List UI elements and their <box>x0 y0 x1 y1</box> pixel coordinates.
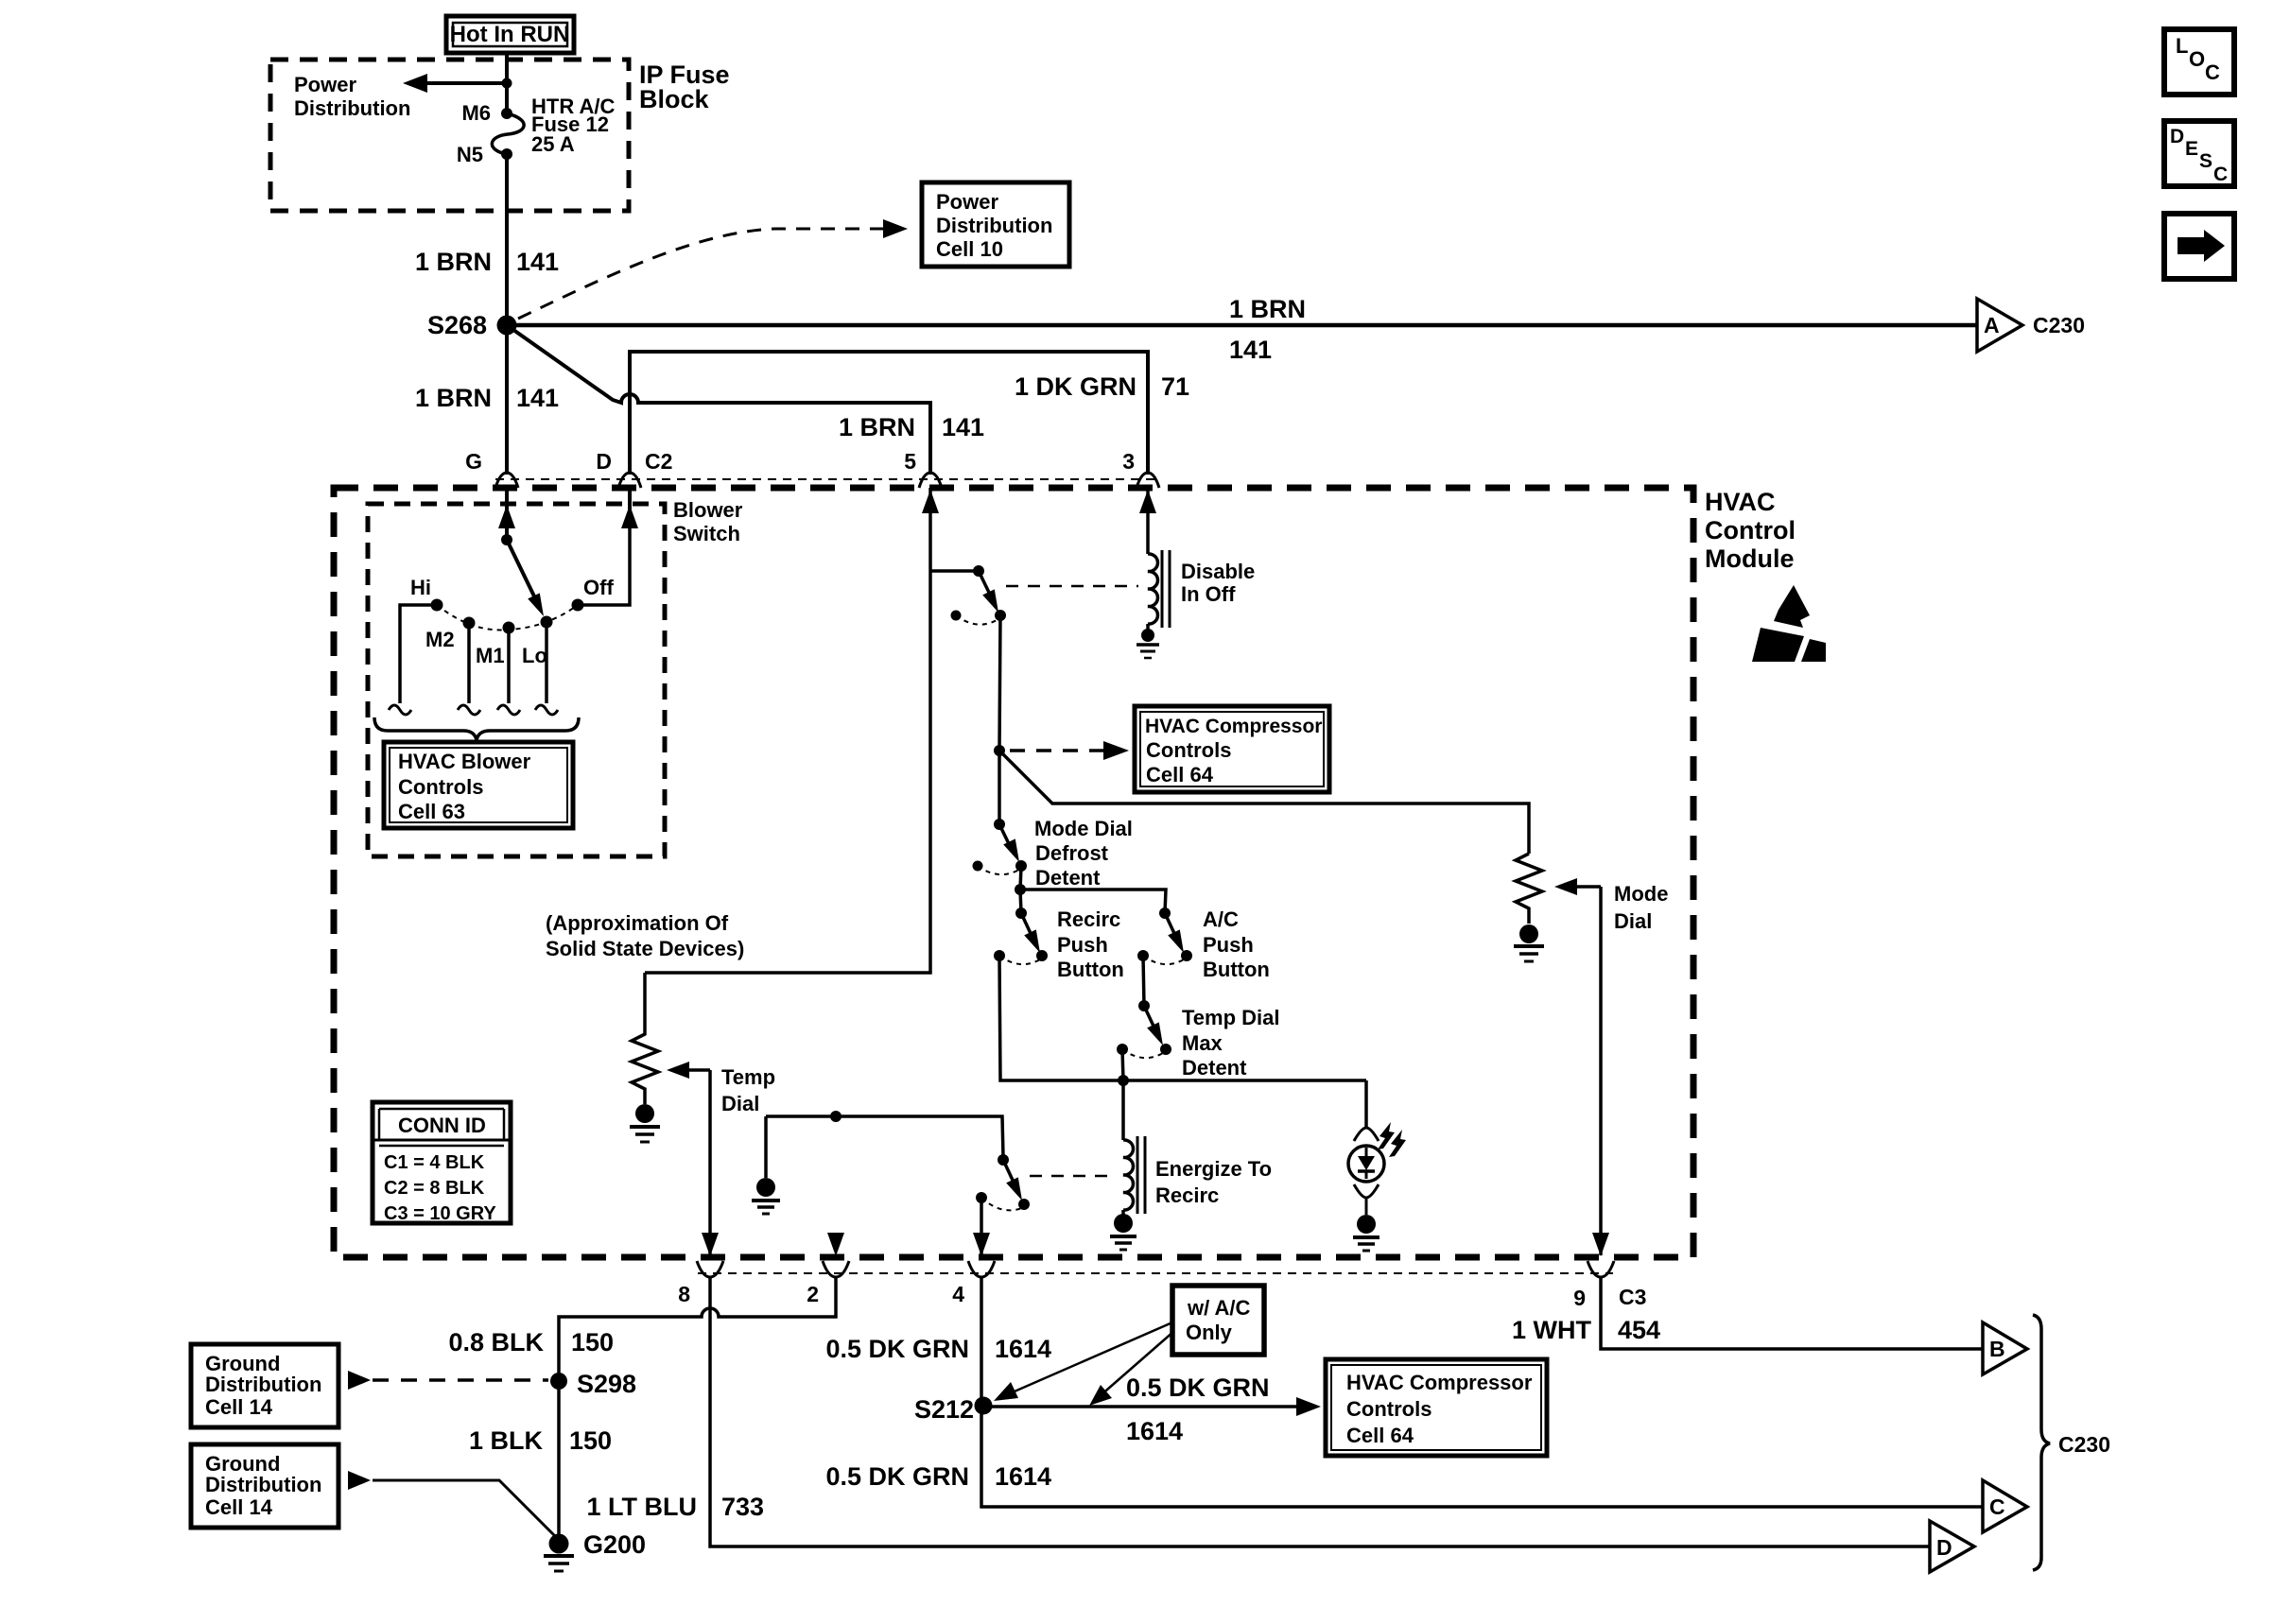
wire down to Defrost detent pivot <box>998 751 1001 824</box>
terminal 2 bump <box>823 1261 849 1277</box>
svg-text:Cell 10: Cell 10 <box>936 237 1003 261</box>
svg-text:9: 9 <box>1573 1286 1586 1310</box>
Temp Dial Max Detent pivot dot <box>1138 1000 1150 1011</box>
svg-text:1 WHT: 1 WHT <box>1512 1316 1592 1344</box>
wire A/C fixed contact down to Temp Max pivot <box>1143 956 1144 1006</box>
svg-text:2: 2 <box>807 1282 819 1306</box>
ground below Mode Dial resistor <box>1514 924 1544 961</box>
Ground Distribution Cell 14 box (lower) <box>191 1444 338 1528</box>
svg-text:Mode Dial: Mode Dial <box>1034 817 1133 840</box>
arrowhead down at border (terminal 4) <box>973 1233 990 1256</box>
svg-text:Distribution: Distribution <box>936 214 1052 237</box>
svg-text:D: D <box>2170 126 2184 147</box>
Temp Dial wiper arrow <box>667 1062 710 1079</box>
coil Disable In Off <box>1148 550 1170 628</box>
wire S298 down to G200 (1 BLK 150) <box>557 1381 561 1537</box>
wire S212 right to HVAC Compressor Controls (0.5 DK GRN 1614) <box>983 1405 1309 1408</box>
svg-text:1614: 1614 <box>1126 1417 1183 1445</box>
ground below Temp Dial resistor <box>630 1104 660 1142</box>
svg-text:Lo: Lo <box>522 644 547 667</box>
svg-text:A: A <box>1984 313 2000 337</box>
svg-text:Push: Push <box>1203 933 1254 957</box>
A/C push button arm <box>1165 913 1178 942</box>
wire terminal 8 down to connector D (1 LT BLU 733) <box>710 1277 1931 1546</box>
wire terminal 9 down to connector B (1 WHT 454) <box>1601 1277 1984 1349</box>
svg-text:S212: S212 <box>914 1395 974 1424</box>
splice S268 <box>497 316 517 336</box>
A/C dashed arc <box>1143 956 1184 964</box>
svg-text:Temp: Temp <box>721 1065 775 1089</box>
svg-text:150: 150 <box>571 1328 614 1356</box>
svg-text:C1 = 4 BLK: C1 = 4 BLK <box>384 1152 485 1173</box>
wire Hot In RUN down to S268 <box>505 53 509 113</box>
wire Recirc fixed contact down to LED feed line <box>999 956 1366 1080</box>
arrowhead up at blower box (Off wire) <box>621 505 638 528</box>
arrowhead up at module border (terminal 3) <box>1139 490 1156 513</box>
label 1 LT BLU 733 <box>587 1493 765 1521</box>
underbrace to HVAC Blower Controls <box>374 717 579 740</box>
svg-text:Controls: Controls <box>1146 738 1231 762</box>
wire-break squiggle M1 <box>497 705 520 715</box>
svg-text:1 BRN: 1 BRN <box>839 413 915 441</box>
svg-text:M6: M6 <box>461 101 491 125</box>
Energize dashed arc <box>981 1198 1022 1210</box>
Defrost detent dashed arc <box>978 866 1019 874</box>
label (Approximation Of Solid State Devices) <box>546 911 744 960</box>
legend box LOC <box>2164 29 2234 95</box>
wire-break squiggle Lo <box>535 705 558 715</box>
junction dot (push button feed) <box>1015 884 1026 895</box>
svg-text:1614: 1614 <box>995 1462 1051 1491</box>
wire terminal D into blower switch <box>628 488 632 522</box>
Recirc arm arrowhead <box>1024 929 1040 953</box>
label Disable In Off <box>1181 560 1255 606</box>
Recirc fixed contact dot <box>994 950 1005 961</box>
svg-text:Mode: Mode <box>1614 882 1668 906</box>
label IP Fuse Block <box>639 60 730 113</box>
svg-text:(Approximation Of: (Approximation Of <box>546 911 729 935</box>
svg-text:L: L <box>2176 34 2188 58</box>
svg-text:1 DK GRN: 1 DK GRN <box>1015 372 1136 401</box>
svg-text:N5: N5 <box>457 143 483 166</box>
svg-text:5: 5 <box>904 449 916 474</box>
wire Temp Max fixed contact to junction <box>1122 1049 1123 1080</box>
Blower Switch inner dashed box <box>368 504 665 856</box>
label 1 WHT 454 <box>1512 1316 1660 1344</box>
LED top connector chevron <box>1354 1128 1379 1141</box>
svg-text:B: B <box>1989 1337 2005 1361</box>
svg-text:C2: C2 <box>645 449 672 474</box>
fuse F12 terminal N5 <box>501 148 512 160</box>
wire Defrost contact to push button branch <box>1020 866 1021 890</box>
wire junction down to Energize coil <box>1121 1080 1125 1140</box>
Temp Max Detent arm <box>1144 1006 1157 1034</box>
svg-text:M2: M2 <box>425 628 455 651</box>
w/ A/C Only box <box>1172 1286 1264 1355</box>
svg-text:141: 141 <box>516 248 559 276</box>
legend box arrow <box>2164 214 2234 279</box>
wire Disable contact down to Defrost branch <box>999 615 1000 751</box>
wire down to LED <box>1364 1080 1368 1127</box>
junction dot at arrow branch <box>502 78 512 89</box>
ground stub on recirc feed line <box>752 1116 780 1214</box>
HVAC Control Module dashed border <box>334 488 1693 1257</box>
svg-text:D: D <box>596 449 612 474</box>
svg-text:CONN ID: CONN ID <box>398 1114 486 1137</box>
terminal 3 bump <box>1136 473 1159 488</box>
svg-text:141: 141 <box>942 413 984 441</box>
Temp Max arm arrowhead <box>1147 1022 1163 1045</box>
label Blower Switch <box>673 498 743 545</box>
wire M1 stub <box>507 628 511 703</box>
svg-text:1 BRN: 1 BRN <box>415 248 492 276</box>
Recirc dashed arc <box>999 956 1040 964</box>
wire Ground Distribution (lower) to G200 <box>373 1480 559 1540</box>
svg-text:1614: 1614 <box>995 1335 1051 1363</box>
LED light rays <box>1378 1122 1406 1157</box>
A/C moving contact dot <box>1181 950 1192 961</box>
wire blower pivot feed <box>505 522 509 540</box>
label 1 BRN 141 (at terminal 5) <box>839 413 984 441</box>
svg-text:S298: S298 <box>577 1370 636 1398</box>
svg-text:25 A: 25 A <box>531 132 575 156</box>
terminal 5 bump <box>919 473 942 488</box>
reference line w/ A/C Only to wire 1614 <box>1089 1331 1174 1406</box>
Defrost detent fixed contact dot <box>973 861 983 872</box>
wire Mode Dial wiper down to terminal 9 <box>1599 887 1603 1255</box>
svg-text:C: C <box>2213 164 2228 185</box>
Mode Dial wiper arrow <box>1554 878 1601 895</box>
svg-text:0.5 DK GRN: 0.5 DK GRN <box>1126 1373 1270 1402</box>
svg-text:150: 150 <box>569 1426 612 1455</box>
svg-text:Controls: Controls <box>398 775 483 799</box>
svg-text:In Off: In Off <box>1181 582 1236 606</box>
svg-text:HVAC Compressor: HVAC Compressor <box>1145 716 1322 737</box>
label Energize To Recirc <box>1155 1157 1272 1207</box>
svg-text:E: E <box>2185 138 2198 160</box>
dashed reference arrow to HVAC Compressor Controls <box>1010 749 1104 752</box>
label Temp Dial Max Detent <box>1182 1006 1280 1080</box>
A/C arm arrowhead <box>1168 929 1184 953</box>
label 1 BRN 141 (below S268) <box>415 384 559 412</box>
svg-text:1 BRN: 1 BRN <box>415 384 492 412</box>
svg-text:Block: Block <box>639 85 710 113</box>
svg-text:C3 = 10 GRY: C3 = 10 GRY <box>384 1203 496 1224</box>
label Power Distribution (in fuse box) <box>294 73 410 120</box>
ground below LED <box>1353 1215 1379 1251</box>
junction dot (A/C request node) <box>994 745 1005 756</box>
wire S212 down to connector C (0.5 DK GRN 1614) <box>981 1406 1984 1507</box>
svg-text:Max: Max <box>1182 1031 1223 1055</box>
arrowhead into HVAC Compressor Controls box <box>1103 741 1129 760</box>
blower contact Off <box>572 599 584 612</box>
terminal 4 bump <box>968 1261 995 1277</box>
svg-text:Detent: Detent <box>1035 866 1101 890</box>
svg-text:HVAC: HVAC <box>1705 488 1776 516</box>
terminal 9 bump <box>1588 1261 1614 1277</box>
HVAC Compressor Controls Cell 64 box (lower) <box>1326 1359 1547 1456</box>
arrowhead down at border (terminal 2) <box>827 1233 844 1256</box>
svg-text:Hi: Hi <box>410 576 431 599</box>
Recirc push button arm <box>1021 913 1034 942</box>
wire S268 diagonal to terminal 5 (with hop over D wire) <box>507 325 930 475</box>
svg-text:Solid State Devices): Solid State Devices) <box>546 937 744 960</box>
svg-text:Energize To: Energize To <box>1155 1157 1272 1181</box>
svg-text:1 BRN: 1 BRN <box>1229 295 1306 323</box>
IP Fuse Block dashed box <box>270 60 629 211</box>
svg-text:G200: G200 <box>583 1530 646 1559</box>
blower contact M1 <box>503 622 515 634</box>
Energize switch pivot dot <box>998 1154 1009 1166</box>
svg-text:C230: C230 <box>2058 1432 2110 1457</box>
Energize switch arm <box>1003 1160 1016 1188</box>
svg-text:A/C: A/C <box>1203 907 1239 931</box>
mechanical dashed link to Disable In Off coil <box>1006 585 1138 588</box>
label Temp Dial <box>721 1065 775 1115</box>
A/C push button pivot dot <box>1159 907 1171 919</box>
wire S268 to connector A (1 BRN 141) <box>507 323 1978 328</box>
svg-text:Temp Dial: Temp Dial <box>1182 1006 1280 1029</box>
terminal 8 bump <box>697 1261 723 1277</box>
svg-text:S268: S268 <box>427 311 487 339</box>
svg-text:Distribution: Distribution <box>205 1373 321 1396</box>
Recirc moving contact dot <box>1036 950 1048 961</box>
svg-text:Recirc: Recirc <box>1155 1183 1219 1207</box>
svg-text:4: 4 <box>952 1282 964 1306</box>
svg-text:C230: C230 <box>2033 313 2085 337</box>
svg-text:Only: Only <box>1186 1321 1233 1344</box>
svg-text:C3: C3 <box>1619 1285 1646 1309</box>
wire Hi to stub <box>400 605 437 703</box>
reference line w/ A/C Only to S212 <box>994 1322 1172 1401</box>
label 0.8 BLK 150 <box>448 1328 614 1356</box>
svg-text:454: 454 <box>1618 1316 1660 1344</box>
dashed reference line to S298 <box>373 1378 548 1382</box>
blower switch pivot dot <box>501 534 512 545</box>
svg-text:Module: Module <box>1705 544 1795 573</box>
junction dot on LED feed line <box>1118 1075 1129 1086</box>
Defrost detent switch arm <box>999 824 1013 852</box>
mechanical dashed link to Energize coil <box>1030 1175 1116 1178</box>
svg-text:C: C <box>1989 1494 2005 1519</box>
svg-text:Control: Control <box>1705 516 1796 544</box>
blower contact Hi <box>431 599 443 612</box>
splice S212 <box>975 1397 993 1415</box>
wire down to Recirc push button <box>1020 890 1021 913</box>
ESD sensitivity symbol <box>1752 585 1826 662</box>
terminal D bump <box>618 473 641 488</box>
Energize fixed contact dot <box>976 1192 987 1203</box>
svg-text:Switch: Switch <box>673 522 740 545</box>
svg-text:Dial: Dial <box>721 1092 759 1115</box>
svg-text:141: 141 <box>1229 336 1272 364</box>
connector arrow D <box>1930 1521 1974 1572</box>
svg-text:Controls: Controls <box>1346 1397 1431 1421</box>
svg-text:O: O <box>2189 47 2205 71</box>
wire terminal G into blower switch <box>505 488 509 522</box>
arrowhead up at blower box (G feed) <box>498 505 515 528</box>
Temp Max fixed contact dot <box>1117 1044 1128 1055</box>
blower switch arm arrowhead <box>528 593 544 616</box>
connector C2 dashed tie line (top terminals) <box>495 478 1161 480</box>
arrowhead into HVAC Compressor Controls box (lower) <box>1296 1397 1321 1416</box>
arrowhead into Power Distribution Cell 10 box <box>883 219 908 238</box>
svg-text:0.5 DK GRN: 0.5 DK GRN <box>825 1462 969 1491</box>
svg-text:Dial: Dial <box>1614 909 1652 933</box>
Defrost detent moving contact dot <box>1015 860 1027 872</box>
label Recirc Push Button <box>1057 907 1124 981</box>
Hot In RUN box <box>446 16 574 53</box>
blower switch arm <box>507 540 537 602</box>
label A/C Push Button <box>1203 907 1270 981</box>
svg-text:G: G <box>465 449 482 474</box>
resistor Mode Dial <box>1516 854 1542 924</box>
ground G200 <box>544 1534 574 1572</box>
fuse F12 terminal M6 <box>501 108 512 119</box>
LED diode symbol <box>1358 1148 1375 1179</box>
svg-text:Power: Power <box>294 73 356 96</box>
svg-text:Button: Button <box>1203 958 1270 981</box>
svg-text:M1: M1 <box>476 644 505 667</box>
terminal G bump <box>495 473 518 488</box>
blower contacts dashed arc <box>437 605 578 630</box>
wire recirc solenoid feed (to Energize switch pivot) <box>766 1116 1003 1156</box>
svg-text:Cell 14: Cell 14 <box>205 1495 273 1519</box>
fuse F12 element (HTR A/C Fuse 12 25A) <box>492 113 524 154</box>
Disable switch arm arrowhead <box>982 589 998 613</box>
splice S298 <box>550 1373 567 1390</box>
svg-text:Blower: Blower <box>673 498 743 522</box>
label 0.5 DK GRN 1614 (upper) <box>825 1335 1051 1363</box>
svg-text:0.8 BLK: 0.8 BLK <box>448 1328 544 1356</box>
svg-text:71: 71 <box>1161 372 1189 401</box>
ground below Energize coil <box>1110 1210 1136 1250</box>
wire S268 down to terminal G <box>505 325 509 475</box>
Disable switch pivot dot <box>973 565 984 577</box>
LED bottom connector chevron <box>1354 1184 1379 1215</box>
svg-text:Power: Power <box>936 190 998 214</box>
svg-text:Cell 64: Cell 64 <box>1146 763 1214 786</box>
svg-text:733: 733 <box>721 1493 764 1521</box>
junction dot (terminal 2 branch) <box>830 1111 842 1122</box>
svg-text:Cell 64: Cell 64 <box>1346 1424 1414 1447</box>
label HTR A/C Fuse 12 25 A <box>531 95 616 156</box>
label 1 BLK 150 <box>469 1426 612 1455</box>
svg-text:Recirc: Recirc <box>1057 907 1120 931</box>
svg-text:C: C <box>2205 60 2220 84</box>
wire branch to A/C push button <box>1020 890 1166 913</box>
blower contact M2 <box>463 617 476 630</box>
connector brace C230 <box>2033 1315 2050 1570</box>
svg-text:C2 = 8 BLK: C2 = 8 BLK <box>384 1178 485 1199</box>
Energize moving contact dot <box>1018 1199 1030 1210</box>
wire Lo stub <box>545 622 548 703</box>
svg-text:3: 3 <box>1122 449 1135 474</box>
Recirc push button pivot dot <box>1015 907 1027 919</box>
svg-text:Distribution: Distribution <box>205 1473 321 1496</box>
arrowhead up at module border (terminal 5) <box>922 490 939 513</box>
Temp Max dashed arc <box>1122 1049 1163 1058</box>
wire Temp wiper down to terminal 8 <box>708 1070 712 1255</box>
svg-text:1 LT BLU: 1 LT BLU <box>587 1493 698 1521</box>
wire terminal 5 down and left to Temp Dial resistor <box>645 488 930 973</box>
connector arrow C <box>1983 1480 2027 1532</box>
svg-text:0.5 DK GRN: 0.5 DK GRN <box>825 1335 969 1363</box>
label Mode Dial Defrost Detent <box>1034 817 1133 890</box>
LED circle <box>1348 1146 1384 1182</box>
wire terminal 3 down to coil <box>1146 488 1150 554</box>
svg-text:w/ A/C: w/ A/C <box>1187 1296 1251 1320</box>
resistor Temp Dial <box>632 973 658 1104</box>
svg-text:8: 8 <box>678 1282 690 1306</box>
Disable switch travel dashed arc <box>956 615 998 625</box>
arrowhead down at border (terminal 9) <box>1592 1233 1609 1256</box>
svg-text:S: S <box>2199 150 2212 172</box>
blower contact Lo <box>541 616 553 629</box>
svg-text:Hot In RUN: Hot In RUN <box>450 22 570 47</box>
connector dashed tie line (bottom terminals) <box>698 1272 1613 1274</box>
label 1 DK GRN 71 <box>1015 372 1189 401</box>
wire-break squiggle Hi <box>389 705 411 715</box>
HVAC Blower Controls Cell 63 box <box>384 742 573 828</box>
arrowhead from Ground Distribution (lower) <box>348 1471 371 1490</box>
arrowhead down at border (terminal 8) <box>702 1233 719 1256</box>
CONN ID table <box>373 1102 511 1224</box>
label 1 BRN 141 (above S268) <box>415 248 559 276</box>
wire branch to Disable switch pivot <box>930 569 979 573</box>
svg-text:D: D <box>1936 1535 1952 1560</box>
wire Off up to terminal D <box>578 522 630 605</box>
label HVAC Control Module <box>1705 488 1796 573</box>
svg-text:Distribution: Distribution <box>294 96 410 120</box>
wire terminal 2 to S298/G200 (with hop over 733 wire) <box>559 1277 836 1373</box>
svg-text:HVAC Blower: HVAC Blower <box>398 750 531 773</box>
Ground Distribution Cell 14 box (upper) <box>191 1344 338 1427</box>
svg-text:Cell 14: Cell 14 <box>205 1395 273 1419</box>
connector arrow A <box>1977 299 2022 352</box>
svg-text:Disable: Disable <box>1181 560 1255 583</box>
connector arrow B <box>1983 1322 2027 1374</box>
Mode Dial Defrost Detent pivot dot <box>994 819 1005 830</box>
svg-text:Button: Button <box>1057 958 1124 981</box>
dashed reference curve S268 to Power Distribution Cell 10 <box>518 229 883 319</box>
wire loop terminal D to terminal 3 (1 DK GRN 71) <box>630 352 1148 475</box>
wire terminal 4 down to S212 <box>980 1277 983 1406</box>
svg-text:HVAC Compressor: HVAC Compressor <box>1346 1371 1533 1394</box>
Disable switch fixed contact dot <box>951 611 962 621</box>
Temp Max moving contact dot <box>1160 1044 1171 1055</box>
svg-text:Cell 63: Cell 63 <box>398 800 465 823</box>
Disable switch moving contact dot <box>995 610 1006 621</box>
A/C fixed contact dot <box>1137 950 1149 961</box>
label 0.5 DK GRN 1614 (lower) <box>825 1462 1051 1491</box>
arrowhead from Ground Distribution (upper) <box>348 1371 371 1390</box>
Disable switch arm <box>979 571 992 598</box>
svg-text:Defrost: Defrost <box>1035 841 1109 865</box>
wire M2 stub <box>467 623 471 703</box>
coil Energize To Recirc <box>1123 1136 1145 1214</box>
label Mode Dial <box>1614 882 1668 933</box>
Defrost detent arm arrowhead <box>1003 838 1019 862</box>
HVAC Compressor Controls Cell 64 box (upper) <box>1135 706 1329 792</box>
svg-text:Push: Push <box>1057 933 1108 957</box>
svg-text:Off: Off <box>583 576 614 599</box>
ground below Disable coil <box>1136 624 1159 658</box>
wire branch to power distribution (left arrow) <box>403 74 507 93</box>
legend box DESC <box>2164 121 2234 186</box>
Energize arm arrowhead <box>1006 1177 1022 1201</box>
Power Distribution Cell 10 box <box>922 182 1069 267</box>
